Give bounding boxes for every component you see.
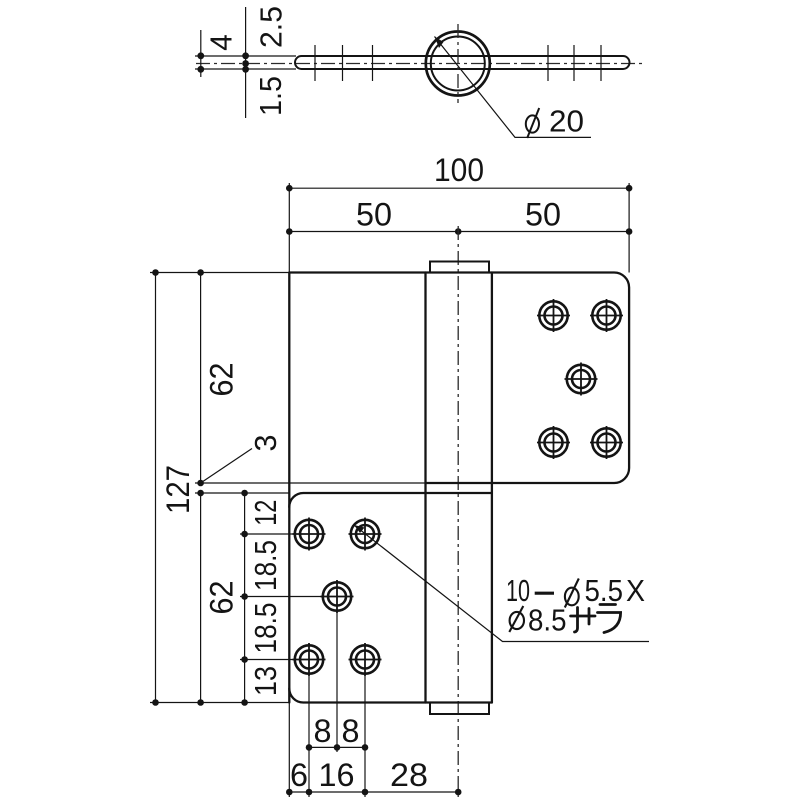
row extension y534 — [240, 533, 294, 535]
hole U4 — [537, 426, 570, 459]
hole L2 — [349, 518, 382, 551]
dim text 16 — [319, 757, 355, 793]
leader 10-phi5.5 — [354, 525, 649, 642]
dim text 2.5 — [254, 6, 289, 48]
svg-text:8: 8 — [342, 713, 360, 749]
dim text 28 — [390, 757, 428, 793]
extension line right top — [628, 183, 630, 273]
svg-text:10: 10 — [506, 573, 530, 608]
svg-text:4: 4 — [204, 34, 239, 51]
dimension line 62 lower — [197, 490, 204, 706]
extension line y483 — [195, 482, 426, 484]
upper leaf outline — [289, 272, 629, 483]
dim text 8 right — [342, 713, 360, 749]
hole U2 — [590, 299, 623, 332]
dimension line 62 upper — [197, 269, 204, 486]
hole center tick right 3 — [600, 45, 602, 81]
left edge both leaves — [288, 273, 290, 703]
hole L1 — [293, 518, 326, 551]
hole center tick left 1 — [314, 45, 316, 81]
extension line y272.5 — [150, 272, 289, 274]
hole center tick left 2 — [342, 45, 344, 81]
svg-text:8: 8 — [314, 713, 332, 749]
dim text 18.5 upper — [248, 540, 283, 591]
knuckle circle outer — [426, 32, 490, 96]
svg-text:16: 16 — [319, 757, 355, 793]
svg-text:8.5: 8.5 — [528, 603, 567, 638]
hole U3 — [565, 363, 598, 396]
katakana SA — [571, 608, 595, 633]
svg-text:5.5: 5.5 — [585, 573, 624, 608]
dim text 13 — [248, 666, 283, 696]
extension hole col1 down — [308, 676, 310, 797]
leader 3 — [201, 449, 252, 484]
dimension line 100 — [286, 185, 632, 192]
svg-text:50: 50 — [356, 197, 392, 233]
hole center tick right 1 — [547, 45, 549, 81]
dim text 50 right — [525, 197, 561, 233]
stack dimension line 12/18.5/18.5/13 — [241, 490, 248, 706]
dim text 8 left — [314, 713, 332, 749]
knuckle circle vertical centerline — [457, 24, 459, 103]
dimension line 8 8 — [306, 744, 369, 751]
hole center tick left 3 — [372, 45, 374, 81]
svg-text:18.5: 18.5 — [248, 540, 283, 591]
svg-text:12: 12 — [248, 500, 283, 526]
dim text 18.5 lower — [248, 603, 283, 654]
svg-text:50: 50 — [525, 197, 561, 233]
svg-text:6: 6 — [290, 757, 308, 793]
svg-text:62: 62 — [204, 363, 240, 397]
svg-text:100: 100 — [434, 152, 484, 188]
extension left edge down — [288, 703, 290, 798]
front vertical centerline — [457, 226, 459, 797]
svg-text:1.5: 1.5 — [253, 76, 288, 116]
extension line y493 — [195, 492, 289, 494]
knuckle left edge — [424, 273, 426, 703]
row extension y659.5 — [240, 659, 294, 661]
knuckle right edge — [491, 273, 493, 703]
knuckle bottom cap — [430, 703, 489, 715]
label phi20 — [526, 104, 584, 139]
top view leaf bar outline — [295, 56, 630, 69]
dim text 12 — [248, 500, 283, 526]
svg-text:3: 3 — [248, 435, 283, 452]
dim text 100 — [434, 152, 484, 188]
lower leaf top edge — [289, 493, 492, 507]
extension line bar bottom — [195, 68, 296, 70]
leader line phi20 — [435, 37, 592, 138]
dim text 6 — [290, 757, 308, 793]
dim text 62 upper — [204, 363, 240, 397]
hole U5 — [590, 426, 623, 459]
svg-text:28: 28 — [390, 757, 428, 793]
svg-text:20: 20 — [549, 104, 584, 139]
dimension line 127 — [152, 269, 159, 706]
hole L3 — [321, 580, 354, 613]
row extension y596.5 — [240, 596, 322, 598]
dim text 4 — [204, 34, 239, 51]
extension line bar top — [195, 55, 296, 57]
callout text line2 phi8.5 sara — [509, 603, 620, 638]
lower leaf bottom edge — [289, 689, 492, 703]
dim text 50 left — [356, 197, 392, 233]
extension line y702.5 — [150, 702, 289, 704]
hole L4 — [293, 643, 326, 676]
svg-text:62: 62 — [204, 581, 240, 615]
dim text 1.5 — [253, 76, 288, 116]
extension hole mid down — [336, 613, 338, 752]
extension hole col2 down — [364, 676, 366, 797]
hole U1 — [537, 299, 570, 332]
knuckle top cap — [430, 262, 489, 273]
extension line left top — [288, 183, 290, 273]
katakana RA — [598, 605, 621, 633]
dim text 3 — [248, 435, 283, 452]
hole L5 — [349, 643, 382, 676]
callout text line1 10-phi5.5X — [506, 573, 645, 608]
svg-text:13: 13 — [248, 666, 283, 696]
dim text 62 lower — [204, 581, 240, 615]
svg-text:X: X — [626, 573, 645, 608]
knuckle circle inner — [431, 37, 485, 91]
dimension line 2.5 / 1.5 — [242, 7, 249, 118]
svg-text:127: 127 — [160, 465, 196, 514]
dimension line 50 50 — [286, 228, 632, 235]
dimension line 4 (top view thickness) — [197, 30, 204, 77]
svg-text:18.5: 18.5 — [248, 603, 283, 654]
svg-text:2.5: 2.5 — [254, 6, 289, 48]
dim text 127 — [160, 465, 196, 514]
dimension line 6/16/28 — [286, 789, 462, 796]
top view horizontal centerline — [196, 63, 646, 65]
hole center tick right 2 — [573, 45, 575, 81]
